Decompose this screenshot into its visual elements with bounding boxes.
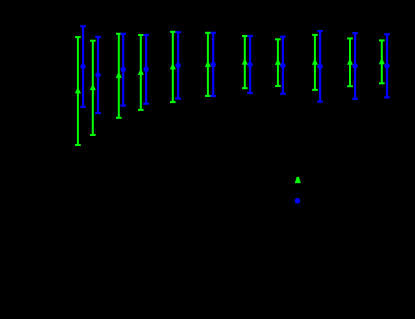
legend marker green triangle bbox=[295, 177, 301, 183]
errorbar G8 green series bbox=[275, 39, 281, 86]
errorbar G11 green series bbox=[379, 40, 385, 83]
legend marker blue circle bbox=[295, 198, 300, 204]
errorbar G2 green series bbox=[90, 41, 96, 135]
errorbar B3 blue series bbox=[120, 34, 126, 106]
errorbar B4 blue series bbox=[143, 35, 149, 104]
errorbar B11 blue series bbox=[384, 34, 390, 97]
errorbar B9 blue series bbox=[317, 31, 323, 102]
errorbar B7 blue series bbox=[247, 36, 253, 93]
errorbar B8 blue series bbox=[280, 37, 286, 94]
errorbar B5 blue series bbox=[175, 32, 181, 98]
errorbar G7 green series bbox=[242, 36, 248, 88]
errorbar G4 green series bbox=[138, 35, 144, 110]
errorbar G3 green series bbox=[116, 34, 122, 118]
errorbar G1 green series bbox=[75, 37, 81, 145]
errorbar B10 blue series bbox=[352, 33, 358, 99]
errorbar B1 blue series bbox=[80, 26, 86, 107]
errorbar G9 green series bbox=[312, 35, 318, 90]
errorbar B6 blue series bbox=[210, 33, 216, 96]
errorbar G5 green series bbox=[170, 32, 176, 102]
errorbar G10 green series bbox=[347, 38, 353, 86]
errorbar G6 green series bbox=[205, 33, 211, 96]
errorbar B2 blue series bbox=[95, 37, 101, 113]
